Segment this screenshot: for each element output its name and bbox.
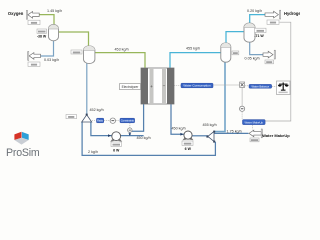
svg-text:+: + [150, 84, 153, 89]
wire vessel4 bottoms to purge product (blue) [250, 42, 264, 55]
svg-text:Water Consumption: Water Consumption [183, 84, 211, 88]
wire vessel3 top to vessel4 (cyan) [226, 32, 244, 43]
svg-text:1.75 kg/h: 1.75 kg/h [227, 130, 242, 134]
svg-text:6 W: 6 W [185, 147, 192, 151]
spec box B3 Water Consumption [181, 83, 213, 88]
icon I1 controller [240, 82, 245, 87]
mixer M2 (splitter) [206, 131, 215, 143]
svg-text:450 kg/h: 450 kg/h [172, 126, 186, 130]
tag box hydrogen stream [267, 20, 279, 24]
wire bottom recycle loop (blue) [82, 122, 215, 155]
info line Water Balance to balance icon I3 [272, 85, 277, 87]
info line mixer M1 to spec box B1 (dashed) [92, 120, 96, 122]
info line Water MakeUp box to makeup stream [251, 125, 253, 130]
icon I3 balance scales [277, 81, 291, 95]
svg-text:Ratio: Ratio [97, 119, 104, 123]
pump P2 [183, 131, 194, 140]
info line Water Consumption to icon I1 [213, 84, 239, 86]
label box Electrolyzer [120, 84, 141, 90]
tag box pump P1 [111, 142, 121, 147]
stream arrow Hydrogen product [265, 10, 281, 19]
spec box B4 Water Balance [249, 84, 272, 88]
wire vessel4 top to hydrogen product (cyan) [250, 15, 265, 24]
wire vessel1 bottoms to water product (blue) [41, 41, 54, 56]
info line B2 to junction circle C2 [129, 123, 131, 128]
vessel V3 hydrogen separator [221, 43, 231, 62]
stream arrow condensed water product 0.03 [28, 52, 41, 61]
svg-text:6 W: 6 W [113, 148, 120, 152]
stream arrow Water MakeUp feed [249, 129, 262, 138]
tag box vessel V3 [232, 51, 239, 55]
info line icon I1 to icon I2 [241, 88, 243, 106]
svg-text:-71 W: -71 W [254, 34, 264, 38]
tag box makeup stream [250, 138, 259, 142]
wire pump P2 outlet to mixer M2 (blue) [192, 135, 208, 137]
info line hydrogen measurement to water balance (right side) [265, 22, 291, 121]
stream arrow Oxygen product [26, 10, 39, 19]
svg-text:Electrolyzer: Electrolyzer [122, 85, 140, 89]
tag box vessel V4 [255, 28, 267, 32]
tag box mixer M1 [66, 115, 77, 119]
arrowhead pump P1 inlet [108, 134, 111, 137]
svg-text:Oxygen: Oxygen [8, 11, 24, 16]
logo ProSim cube [14, 132, 28, 145]
svg-text:ProSim: ProSim [6, 147, 40, 159]
measurement circle C1 [110, 118, 115, 123]
wire electrolyzer H2 outlet to vessel3 (cyan) [170, 53, 221, 68]
svg-text:0.20 kg/h: 0.20 kg/h [247, 9, 262, 13]
svg-text:455 kg/h: 455 kg/h [203, 123, 217, 127]
vessel V1 oxygen flash drum [49, 25, 59, 41]
info line electrolyzer to Water Consumption box [174, 85, 181, 87]
arrowhead junction into pump line [129, 133, 132, 135]
vessel V4 hydrogen flash drum [244, 23, 255, 42]
wire junction stem (blue) [129, 132, 131, 135]
wire vessel2 bottoms to mixer M1 (blue) [86, 63, 88, 114]
tag box vessel V2 [71, 50, 82, 54]
info line icon I1 to Water Balance box [245, 85, 249, 87]
wire mixer M1 to pump P1 (blue) [91, 122, 112, 136]
svg-text:455 kg/h: 455 kg/h [186, 46, 200, 50]
svg-text:0.05 kg/h: 0.05 kg/h [245, 56, 260, 60]
svg-text:−: − [163, 84, 166, 89]
wire vessel3 bottoms to mixer M2 (blue) [214, 62, 225, 132]
tag box pump P2 [182, 141, 193, 145]
info line icon I2 to Water MakeUp box [241, 112, 243, 120]
svg-text:Water MakeUp: Water MakeUp [245, 120, 264, 124]
wire oxygen product line (green) [39, 15, 54, 25]
electrolyzer cell block U1 [141, 68, 174, 104]
svg-text:452 kg/h: 452 kg/h [90, 108, 104, 112]
wire vessel1 to vessel2 (green) [59, 32, 89, 46]
svg-text:Water MakeUp: Water MakeUp [262, 133, 290, 138]
wire pump P1 outlet (blue) [121, 135, 144, 137]
svg-text:Hydrogen: Hydrogen [284, 11, 300, 16]
wire vessel2 to electrolyzer feed (green) [95, 53, 145, 69]
tag box purge stream 0.05 [265, 60, 274, 64]
svg-text:450 kg/h: 450 kg/h [137, 136, 151, 140]
stream arrow purge water product 0.05 [263, 50, 275, 59]
wire water makeup feed line (blue) [214, 132, 248, 134]
tag box oxygen stream [28, 20, 40, 24]
tag box vessel V1 [37, 29, 47, 33]
arrowhead pump P2 inlet [180, 133, 183, 136]
svg-text:453 kg/h: 453 kg/h [115, 47, 129, 51]
svg-text:Constraints: Constraints [121, 119, 135, 123]
mixer M1 [82, 114, 92, 122]
svg-text:-38 W: -38 W [37, 34, 47, 38]
info line C1 to spec box B2 [116, 120, 120, 122]
junction circle C2 [128, 128, 132, 132]
spec box B5 Water MakeUp module [243, 120, 266, 125]
svg-text:1.45 kg/h: 1.45 kg/h [47, 9, 62, 13]
pump P1 [110, 132, 122, 142]
info line B1 to measurement C1 [104, 120, 110, 122]
svg-text:0.03 kg/h: 0.03 kg/h [44, 58, 59, 62]
wire electrolyzer right drain to pump P2 (blue) [171, 104, 184, 134]
vessel V2 water tank [84, 46, 95, 64]
spec box B2 Constraints [120, 118, 135, 123]
tag box water stream 0.03 [28, 62, 40, 66]
wire electrolyzer left drain (blue) [132, 104, 144, 131]
icon I2 measurement circle [240, 106, 245, 111]
svg-text:Water Balance: Water Balance [252, 84, 270, 88]
spec box B1 Ratio [97, 118, 104, 123]
svg-text:2 kg/h: 2 kg/h [88, 150, 98, 154]
